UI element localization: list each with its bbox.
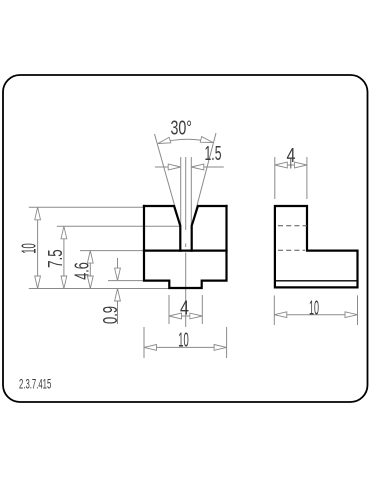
svg-text:10: 10: [19, 243, 41, 254]
svg-text:1.5: 1.5: [205, 143, 222, 165]
svg-text:30°: 30°: [170, 118, 192, 140]
svg-text:10: 10: [309, 297, 319, 319]
svg-text:0.9: 0.9: [100, 306, 122, 324]
svg-text:10: 10: [178, 329, 189, 351]
svg-text:2.3.7.415: 2.3.7.415: [19, 375, 51, 391]
svg-text:4.6: 4.6: [71, 262, 93, 280]
svg-text:4: 4: [180, 298, 189, 320]
svg-text:7.5: 7.5: [45, 249, 67, 268]
